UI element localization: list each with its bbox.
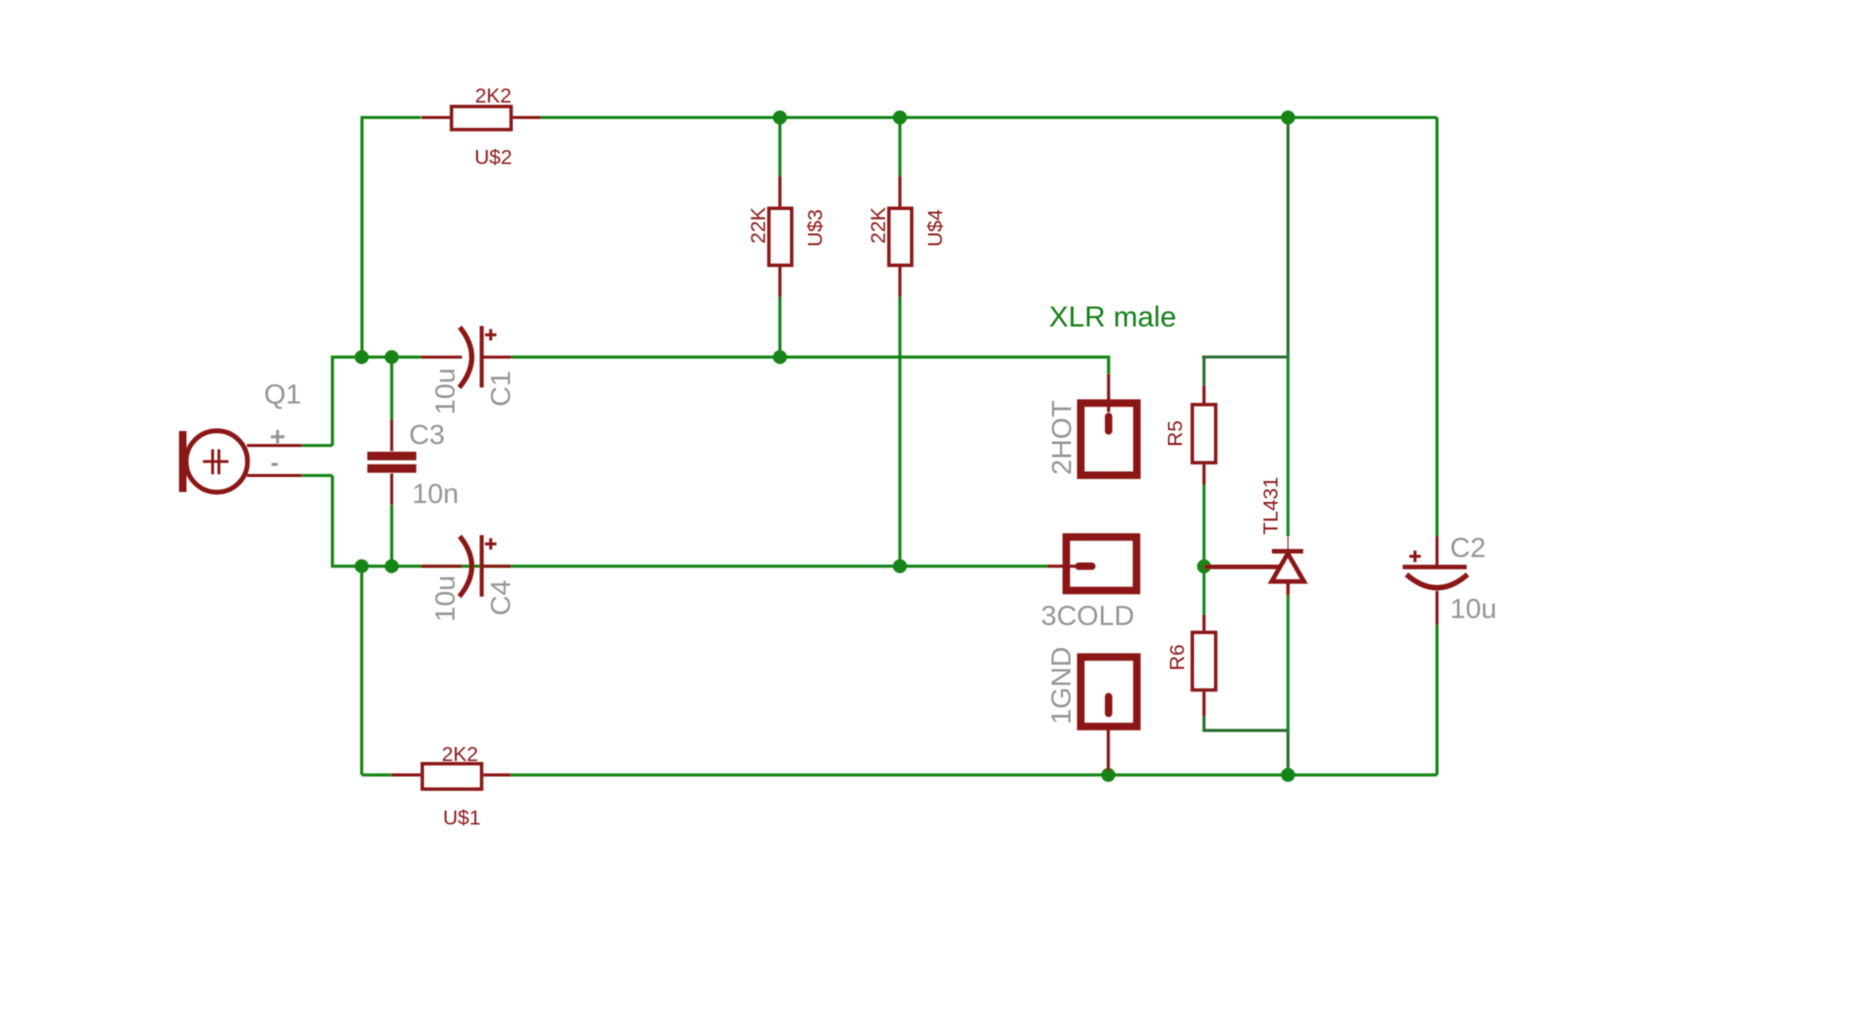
svg-text:22K: 22K bbox=[867, 207, 890, 244]
svg-text:C3: C3 bbox=[409, 419, 445, 450]
svg-text:C4: C4 bbox=[485, 580, 516, 616]
svg-text:10u: 10u bbox=[430, 368, 461, 415]
svg-text:10u: 10u bbox=[1450, 593, 1497, 624]
svg-text:R6: R6 bbox=[1166, 644, 1189, 670]
svg-text:2K2: 2K2 bbox=[442, 743, 478, 766]
svg-text:10n: 10n bbox=[412, 478, 459, 509]
svg-text:U$1: U$1 bbox=[443, 806, 481, 829]
svg-text:2HOT: 2HOT bbox=[1046, 400, 1077, 475]
svg-text:Q1: Q1 bbox=[264, 379, 301, 410]
svg-text:U$2: U$2 bbox=[475, 146, 513, 169]
svg-text:3COLD: 3COLD bbox=[1041, 600, 1134, 631]
svg-text:2K2: 2K2 bbox=[475, 85, 511, 108]
svg-text:10u: 10u bbox=[430, 575, 461, 622]
svg-text:U$4: U$4 bbox=[924, 209, 947, 247]
svg-text:XLR male: XLR male bbox=[1049, 302, 1176, 334]
svg-text:TL431: TL431 bbox=[1260, 477, 1283, 535]
svg-text:U$3: U$3 bbox=[804, 209, 827, 247]
svg-text:22K: 22K bbox=[747, 207, 770, 244]
svg-text:R5: R5 bbox=[1164, 420, 1187, 446]
svg-text:C1: C1 bbox=[485, 371, 516, 407]
svg-text:1GND: 1GND bbox=[1046, 647, 1077, 725]
svg-text:C2: C2 bbox=[1450, 532, 1486, 563]
